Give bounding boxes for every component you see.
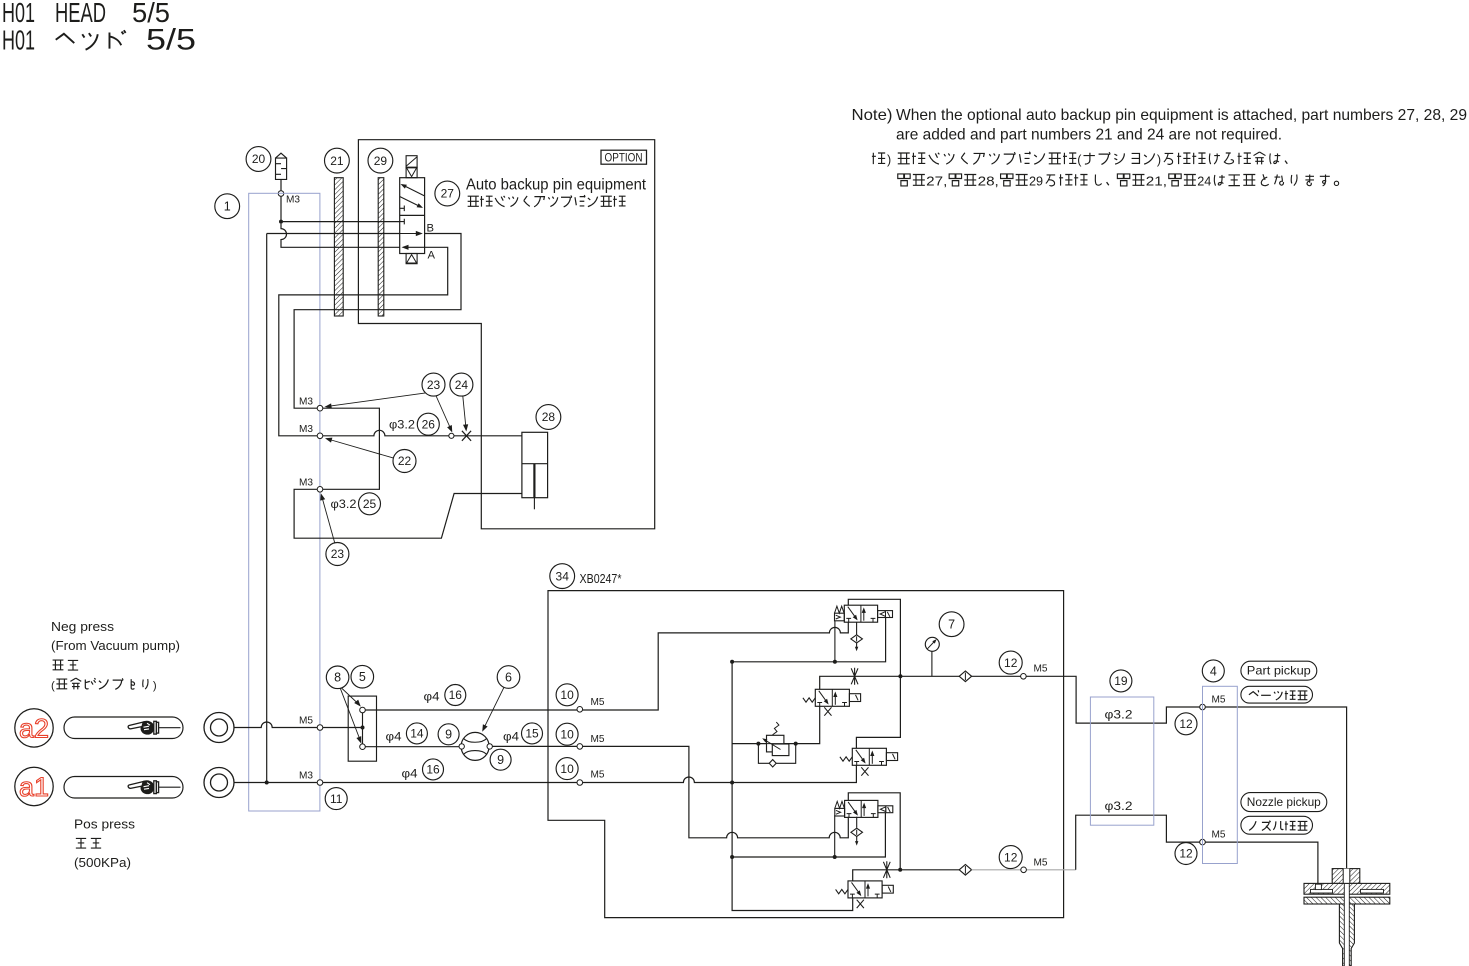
- text (From Vacuum pump): [51, 638, 180, 653]
- svg-text:B: B: [427, 223, 435, 235]
- node M3 a1: [317, 780, 323, 786]
- wire port B loop to M3 node 1: [294, 234, 461, 409]
- svg-text:12: 12: [1004, 850, 1018, 864]
- label M5 part line: [1212, 694, 1226, 706]
- node 12 M5 upper: [1021, 674, 1027, 680]
- restrictor on valve5 line: [883, 861, 890, 878]
- svg-text:1: 1: [224, 200, 231, 214]
- svg-text:M3: M3: [299, 396, 313, 408]
- svg-text:(: (: [1077, 152, 1082, 167]
- svg-text:M5: M5: [1212, 694, 1226, 706]
- wire part pickup to nozzle body: [1205, 707, 1346, 869]
- blue fitting box item 4: [1203, 686, 1238, 863]
- selector manifold box: [348, 696, 376, 761]
- label phi4 16 bottom: [402, 767, 418, 781]
- note text line 3 (Japanese): [872, 152, 1287, 167]
- OPTION label box: [601, 150, 647, 164]
- leader 8 to bottom node: [340, 688, 361, 743]
- svg-text:5: 5: [359, 670, 366, 684]
- blue assembly box item 1: [249, 193, 320, 811]
- svg-text:M3: M3: [299, 770, 313, 782]
- svg-text:M3: M3: [286, 194, 300, 206]
- restrictor on valve2 line: [851, 668, 858, 685]
- label phi3.2 25: [331, 497, 357, 511]
- label port B: [427, 223, 435, 235]
- svg-text:25: 25: [363, 497, 377, 511]
- wire a2 vacuum line (hop over riser): [234, 722, 317, 727]
- blue restrictor box item 19: [1090, 697, 1153, 825]
- balloon 22: [393, 450, 416, 473]
- balloon 16 bottom: [423, 759, 444, 780]
- svg-text:12: 12: [1179, 717, 1193, 731]
- title line 2: H01 ヘッド 5/5: [2, 24, 196, 57]
- nozzle holder assembly (hatched section): [1304, 869, 1390, 966]
- svg-text:29: 29: [374, 154, 388, 168]
- bus top horizontal to valve1 pilot: [732, 618, 886, 662]
- wire top branch (part pickup vacuum feed): [365, 622, 848, 710]
- XB0247 enclosure box: [548, 591, 1064, 918]
- label M5 a2: [299, 715, 313, 727]
- svg-text:φ4: φ4: [424, 690, 440, 704]
- text Pos press: [74, 817, 136, 832]
- svg-text:a2: a2: [19, 714, 49, 744]
- filter right node: [487, 744, 492, 749]
- label phi4 16 top: [424, 690, 440, 704]
- manifold node top: [360, 707, 366, 713]
- svg-text:(From Vacuum pump): (From Vacuum pump): [51, 638, 180, 653]
- svg-text:Auto backup pin equipment: Auto backup pin equipment: [466, 177, 647, 194]
- junction dot bus on a1 line: [730, 781, 734, 785]
- balloon 12 upper: [999, 651, 1022, 674]
- svg-text:M5: M5: [591, 733, 605, 745]
- balloon 10 top: [556, 684, 578, 706]
- balloon 7: [939, 612, 964, 637]
- svg-text:): ): [887, 152, 891, 167]
- hatched wall bar item 21: [334, 178, 343, 316]
- svg-text:H01: H01: [2, 25, 35, 56]
- svg-text:24: 24: [1197, 174, 1211, 189]
- wire valve1 solenoid drop: [834, 621, 836, 662]
- pill with hand pointer (a2 row): [64, 717, 183, 739]
- junction dot bus at valve4 pilot line: [730, 855, 734, 859]
- svg-text:22: 22: [398, 454, 412, 468]
- svg-text:10: 10: [560, 762, 574, 776]
- balloon 16 top: [445, 685, 466, 706]
- leader 6 to filter: [482, 687, 504, 731]
- valve4 exhaust with filter diamond: [851, 817, 863, 846]
- svg-text:21,: 21,: [1146, 174, 1167, 189]
- junction dot bus top: [730, 660, 734, 664]
- OPTION enclosure box (notched dashed-solid outline): [358, 140, 654, 529]
- pilot valve V2 (3/2, part pickup control): [803, 689, 861, 706]
- wire vent to plug X: [454, 435, 522, 437]
- balloon 28: [536, 405, 561, 430]
- svg-text:21: 21: [330, 154, 344, 168]
- label M5 bulkhead mid: [591, 733, 605, 745]
- svg-text:8: 8: [334, 671, 341, 685]
- pressure gauge item 7: [925, 637, 939, 676]
- svg-text:): ): [1157, 152, 1161, 167]
- wire valve4 solenoid drop: [834, 815, 836, 857]
- svg-text:(500KPa): (500KPa): [74, 855, 131, 870]
- svg-text:): ): [153, 680, 157, 692]
- svg-text:28,: 28,: [978, 174, 999, 189]
- svg-text:OPTION: OPTION: [605, 153, 643, 165]
- balloon 12 part line: [1175, 713, 1197, 735]
- text (500KPa): [74, 855, 131, 870]
- svg-text:M5: M5: [299, 715, 313, 727]
- note text line 4 (Japanese): [898, 174, 1339, 189]
- plug X item 24: [462, 431, 471, 441]
- wire filter to M5 node (nozzle vacuum): [492, 745, 577, 747]
- junction dot solenoid drop valve1: [833, 660, 837, 664]
- label XB0247*: [580, 572, 622, 586]
- wire node2 to cylinder top (with hop): [323, 430, 449, 435]
- leader 23 to vent circle: [436, 396, 452, 433]
- balloon 25: [359, 493, 381, 515]
- balloon 5: [351, 665, 374, 688]
- svg-text:When the optional auto backup: When the optional auto backup pin equipm…: [896, 107, 1467, 124]
- balloon 20: [246, 147, 271, 172]
- svg-text:M5: M5: [1034, 663, 1048, 675]
- svg-text:φ4: φ4: [402, 767, 418, 781]
- svg-text:27,: 27,: [926, 174, 947, 189]
- label phi3.2 lower: [1105, 799, 1133, 813]
- wire nozzle pickup line: [1076, 815, 1200, 870]
- svg-text:φ3.2: φ3.2: [389, 418, 415, 432]
- svg-text:M5: M5: [591, 769, 605, 781]
- node 12 nozzle line: [1200, 839, 1206, 845]
- svg-text:14: 14: [410, 727, 424, 741]
- svg-text:20: 20: [252, 152, 266, 166]
- svg-text:XB0247*: XB0247*: [580, 572, 622, 586]
- hatched wall bar item 29: [378, 178, 384, 316]
- svg-text:M5: M5: [1212, 829, 1226, 841]
- label M3 node1: [299, 396, 313, 408]
- plug X below valve5: [857, 900, 864, 908]
- wire valve2 top to M5 line: [820, 676, 1021, 689]
- text Neg press: [51, 619, 115, 634]
- label M5 bulkhead bottom: [591, 769, 605, 781]
- wire valve4 top loop: [848, 793, 900, 870]
- svg-text:26: 26: [422, 417, 436, 431]
- node 10 M5 mid: [577, 744, 583, 750]
- connector diamond lower: [959, 865, 971, 876]
- svg-text:9: 9: [497, 753, 504, 767]
- svg-text:16: 16: [449, 688, 463, 702]
- filter/shuttle circle item 6: [461, 732, 489, 760]
- balloon 9 left: [438, 724, 459, 745]
- cylinder item 28: [522, 432, 548, 509]
- balloon 14: [406, 723, 427, 744]
- svg-text:M3: M3: [299, 423, 313, 435]
- red text a2: [19, 714, 49, 744]
- svg-text:Pos press: Pos press: [74, 817, 136, 832]
- balloon 4: [1202, 660, 1224, 682]
- svg-text:φ3.2: φ3.2: [331, 497, 357, 511]
- text 自動バックアップピン機能: [468, 195, 626, 207]
- leader 23 to node1: [325, 393, 426, 409]
- riser positive pressure (a1 to valve 27): [266, 234, 268, 783]
- bus vertical with bottom run to valve5: [732, 662, 853, 911]
- svg-text:19: 19: [1114, 674, 1128, 688]
- balloon 19: [1110, 670, 1132, 692]
- valve1 exhaust with filter diamond: [851, 622, 863, 651]
- label phi4 14: [386, 730, 402, 744]
- junction dot valve1 loop at M5 line: [898, 674, 902, 678]
- balloon 9 right: [490, 749, 511, 770]
- grey wire lower M5 line: [972, 869, 1076, 871]
- svg-text:φ3.2: φ3.2: [1105, 708, 1133, 722]
- label phi4 15: [503, 730, 519, 744]
- svg-text:12: 12: [1004, 656, 1018, 670]
- svg-text:φ3.2: φ3.2: [1105, 799, 1133, 813]
- pressure regulator with bypass check valve: [732, 706, 820, 767]
- balloon 23 (bottom): [326, 543, 349, 566]
- label phi3.2 26: [389, 418, 415, 432]
- balloon 8: [326, 666, 349, 689]
- wire part pickup line: [1026, 676, 1200, 723]
- pilot valve V1 (3/2 solenoid, part vacuum): [835, 605, 893, 622]
- svg-text:15: 15: [525, 727, 539, 741]
- node M3 1: [317, 405, 323, 411]
- svg-text:Neg press: Neg press: [51, 619, 115, 634]
- node 12 M5 lower: [1021, 867, 1027, 873]
- manifold center junction dot: [361, 726, 365, 730]
- source port a2 label circle: [15, 709, 53, 747]
- wire a1 line continues to valve3 (with hop): [583, 765, 857, 782]
- balloon 1: [215, 194, 240, 219]
- wire nozzle pickup to flange: [1205, 842, 1318, 883]
- wire bulkhead top: [583, 708, 659, 710]
- wire valve1 top loop to valve3: [848, 599, 900, 748]
- svg-text:9: 9: [445, 728, 452, 742]
- plug X below valve3: [861, 767, 868, 775]
- node M3 3: [317, 487, 323, 493]
- svg-text:(: (: [51, 680, 55, 692]
- port circle a1 (positive): [204, 768, 234, 798]
- wire port A loop to M3 node 2: [279, 247, 448, 435]
- node M3 2: [317, 433, 323, 439]
- svg-text:10: 10: [560, 688, 574, 702]
- balloon 24: [450, 373, 473, 396]
- wire mid branch to valve4 (with hops): [583, 746, 849, 837]
- wire manifold bottom node to filter: [365, 746, 459, 748]
- label M5 bulkhead top: [591, 696, 605, 708]
- wire node3 staircase to cylinder bottom: [294, 489, 522, 538]
- leader 23b to node3: [320, 493, 335, 543]
- note text line 1: [852, 107, 1468, 124]
- label M5 nozzle line: [1212, 829, 1226, 841]
- svg-text:6: 6: [505, 670, 512, 684]
- pilot valve V4 (3/2 solenoid, nozzle side): [835, 800, 893, 817]
- pill Part pickup: [1241, 661, 1317, 680]
- svg-text:7: 7: [948, 618, 955, 632]
- pill with hand pointer (a1 row): [64, 777, 183, 799]
- balloon 11: [325, 788, 347, 810]
- svg-text:HEAD: HEAD: [55, 0, 106, 28]
- junction dot B-branch: [279, 220, 283, 224]
- note text line 2: [896, 127, 1282, 144]
- node M3 under silencer: [278, 191, 284, 197]
- label M3 node2: [299, 423, 313, 435]
- balloon 34: [550, 564, 575, 589]
- node 12 part line: [1200, 704, 1206, 710]
- svg-text:16: 16: [426, 763, 440, 777]
- text (真空ポンプより): [51, 678, 157, 692]
- pill ノズル吸着: [1241, 816, 1313, 834]
- svg-text:23: 23: [427, 378, 441, 392]
- node M5 a2: [317, 725, 323, 731]
- source port a1 label circle: [15, 767, 53, 805]
- balloon 27: [435, 181, 460, 206]
- svg-text:23: 23: [331, 547, 345, 561]
- manifold node bottom: [360, 744, 366, 750]
- balloon 23 (top): [422, 373, 445, 396]
- wire B-feed from pos press riser: [267, 233, 400, 235]
- leader 22 to node2: [325, 438, 394, 459]
- manifold internal riser: [362, 713, 364, 744]
- svg-text:M5: M5: [1034, 856, 1048, 868]
- pilot valve V3 (3/2, nozzle vacuum control): [840, 748, 898, 765]
- svg-text:φ4: φ4: [503, 730, 519, 744]
- svg-text:Note): Note): [852, 107, 893, 124]
- text 正圧: [76, 838, 101, 848]
- label M5 12 upper: [1034, 663, 1048, 675]
- wire valve5 top to lower M5 line: [853, 870, 962, 881]
- svg-text:Part pickup: Part pickup: [1247, 664, 1311, 678]
- svg-text:a1: a1: [19, 772, 49, 802]
- svg-text:27: 27: [441, 187, 455, 201]
- balloon 15: [522, 723, 543, 744]
- wire vertical with hop (junction down to A-feed): [281, 224, 400, 248]
- node 10 M5 top: [577, 707, 583, 713]
- pilot valve V5 (3/2, nozzle pickup): [836, 881, 894, 898]
- leader 24 to plug X: [463, 396, 468, 431]
- svg-text:34: 34: [556, 569, 570, 583]
- title line 1: H01 HEAD 5/5: [2, 0, 170, 28]
- label M3 at silencer node: [286, 194, 300, 206]
- junction dot solenoid drop valve4: [833, 855, 837, 859]
- leader 8 to top node: [342, 688, 361, 707]
- label M3 node3: [299, 477, 313, 489]
- svg-text:A: A: [428, 250, 436, 262]
- svg-text:11: 11: [330, 792, 343, 806]
- label M5 12 lower: [1034, 856, 1048, 868]
- wire a1 positive line: [234, 782, 317, 784]
- red text a1: [19, 772, 49, 802]
- silencer/filter component 20: [276, 153, 287, 191]
- balloon 29: [368, 148, 393, 173]
- plug X below valve2: [824, 707, 831, 715]
- vent circle item 23: [449, 433, 454, 438]
- svg-text:M5: M5: [591, 696, 605, 708]
- wire a1 line node to manifold-area: [323, 782, 577, 784]
- label phi3.2 upper: [1105, 708, 1133, 722]
- junction dot valve4 loop at lower M5 line: [898, 868, 902, 872]
- svg-text:Nozzle pickup: Nozzle pickup: [1247, 795, 1321, 809]
- svg-text:4: 4: [1210, 664, 1217, 678]
- wire M3 junction to valve27 blocked port: [281, 221, 400, 223]
- filter left node: [459, 744, 464, 749]
- junction dot pos riser on a1 line: [265, 781, 269, 785]
- label port A: [428, 250, 436, 262]
- svg-text:are added and part numbers 21: are added and part numbers 21 and 24 are…: [896, 127, 1282, 144]
- balloon 10 bottom: [556, 758, 578, 780]
- svg-text:M3: M3: [299, 477, 313, 489]
- text Auto backup pin equipment: [466, 177, 647, 194]
- balloon 12 nozzle line: [1175, 843, 1197, 865]
- pill パーツ吸着: [1241, 686, 1313, 703]
- svg-text:φ4: φ4: [386, 730, 402, 744]
- solenoid valve 27 (auto backup pin valve): [400, 156, 425, 264]
- node 10 M5 bottom: [577, 780, 583, 786]
- text 負圧: [53, 660, 79, 670]
- balloon 12 lower: [999, 846, 1022, 869]
- svg-text:10: 10: [560, 727, 574, 741]
- port circle a2 (vacuum): [204, 713, 234, 743]
- connector diamond upper: [959, 671, 971, 682]
- svg-text:24: 24: [455, 378, 469, 392]
- pill Nozzle pickup: [1241, 793, 1327, 812]
- wire a2 node to manifold: [323, 727, 361, 729]
- svg-text:5/5: 5/5: [146, 24, 196, 57]
- svg-text:12: 12: [1179, 847, 1193, 861]
- balloon 6: [497, 666, 520, 689]
- balloon 21: [325, 148, 350, 173]
- wire node1 to node3 link: [323, 408, 380, 489]
- svg-text:28: 28: [542, 410, 556, 424]
- svg-text:29: 29: [1029, 174, 1043, 189]
- wire silencer node to junction: [280, 196, 282, 221]
- balloon 10 mid: [556, 723, 578, 745]
- balloon 26: [417, 413, 439, 435]
- label M3 a1: [299, 770, 313, 782]
- valve4 pilot feed horizontal: [732, 812, 885, 857]
